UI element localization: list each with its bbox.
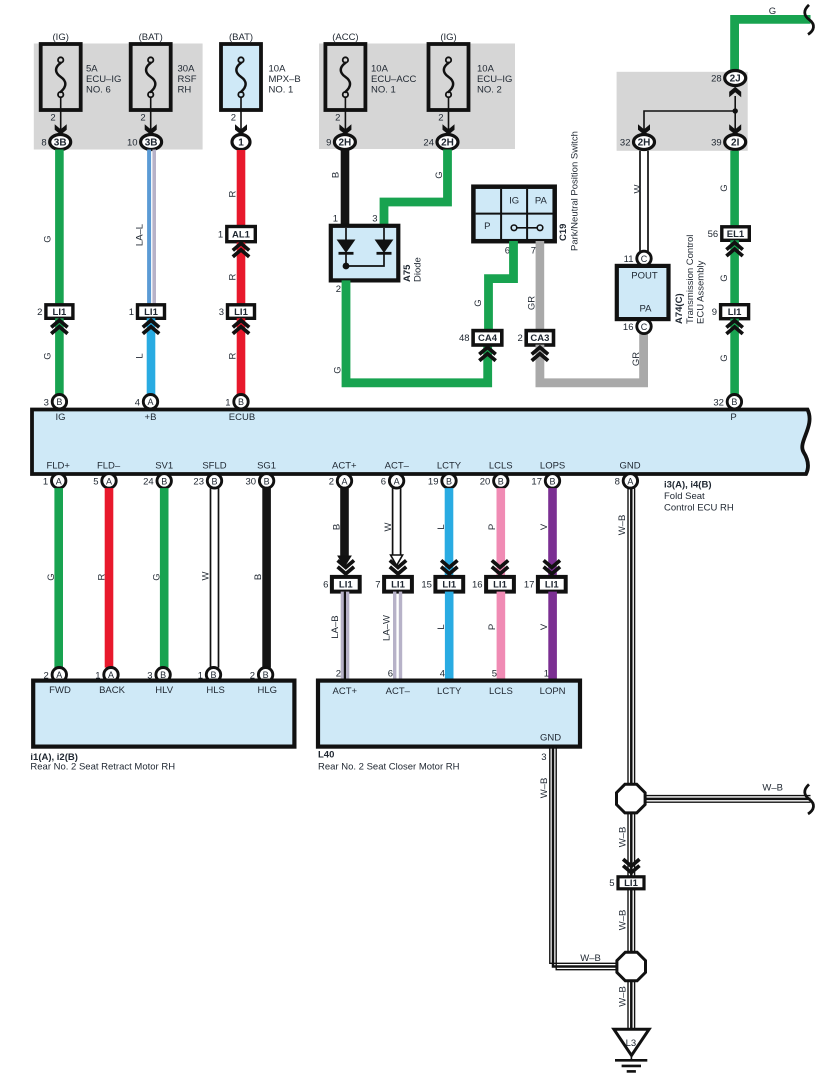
diode 2 cathode bar bbox=[377, 252, 392, 255]
svg-text:2: 2 bbox=[335, 113, 340, 124]
svg-text:Rear No. 2 Seat Retract Motor: Rear No. 2 Seat Retract Motor RH bbox=[30, 762, 175, 773]
svg-text:G: G bbox=[719, 184, 730, 191]
svg-text:3: 3 bbox=[44, 397, 49, 408]
svg-text:W–B: W–B bbox=[617, 910, 628, 931]
svg-text:1: 1 bbox=[225, 397, 230, 408]
svg-text:B: B bbox=[211, 476, 217, 486]
svg-text:LCLS: LCLS bbox=[489, 686, 513, 697]
A74 pin 11 circle bbox=[637, 251, 651, 265]
svg-text:LI1: LI1 bbox=[144, 307, 158, 318]
svg-text:RSF: RSF bbox=[178, 74, 197, 85]
ECU pin 17(B) circle bbox=[545, 474, 559, 488]
svg-text:2H: 2H bbox=[441, 138, 454, 149]
svg-text:ECU–IG: ECU–IG bbox=[86, 74, 121, 85]
fuse 4 pin 2 wire and arrow bbox=[344, 97, 346, 134]
svg-text:2: 2 bbox=[231, 113, 236, 124]
svg-text:BACK: BACK bbox=[99, 685, 126, 696]
svg-text:1: 1 bbox=[544, 669, 549, 680]
svg-text:B: B bbox=[498, 476, 504, 486]
svg-text:LI1: LI1 bbox=[234, 307, 248, 318]
arrow into 2H bbox=[638, 124, 650, 135]
arrow chevrons below LI1 pin3 bbox=[233, 320, 249, 327]
svg-text:R: R bbox=[96, 573, 107, 580]
svg-text:1: 1 bbox=[218, 230, 223, 241]
arrow outline W ACT- bbox=[391, 555, 403, 566]
svg-text:LI1: LI1 bbox=[493, 580, 507, 591]
arrow chevrons below AL1 bbox=[233, 243, 249, 250]
diode A75 box bbox=[331, 226, 399, 281]
svg-text:24: 24 bbox=[423, 138, 434, 149]
svg-text:LI1: LI1 bbox=[624, 878, 638, 889]
svg-text:C19: C19 bbox=[558, 224, 569, 241]
diode 1 triangle bbox=[337, 240, 356, 254]
svg-text:GND: GND bbox=[540, 733, 561, 744]
connector EL1 pin 56 bbox=[722, 227, 750, 241]
connector LI1 pin 3 bbox=[228, 305, 255, 319]
svg-text:G: G bbox=[43, 235, 54, 242]
motor pin 1(A) circle bbox=[104, 668, 118, 682]
svg-text:NO. 2: NO. 2 bbox=[477, 85, 502, 96]
svg-text:6: 6 bbox=[388, 669, 393, 680]
svg-text:7: 7 bbox=[375, 580, 380, 591]
motor pin 2(B) circle bbox=[258, 668, 272, 682]
svg-text:2: 2 bbox=[438, 113, 443, 124]
svg-text:i3(A), i4(B): i3(A), i4(B) bbox=[664, 480, 712, 491]
svg-text:23: 23 bbox=[193, 477, 204, 488]
svg-text:4: 4 bbox=[135, 397, 140, 408]
svg-text:CA3: CA3 bbox=[530, 333, 549, 344]
svg-text:P: P bbox=[487, 524, 498, 530]
connector 2H pin 32 bbox=[634, 135, 655, 150]
svg-text:2: 2 bbox=[518, 333, 523, 344]
diode 2 anode line bbox=[383, 228, 385, 240]
fuse 10A MPX-B NO. 1 bbox=[221, 44, 261, 110]
seat closer motor box L40 bbox=[318, 681, 580, 747]
wire B SG1 bbox=[262, 488, 271, 667]
svg-text:2H: 2H bbox=[339, 138, 352, 149]
svg-text:20: 20 bbox=[480, 477, 491, 488]
svg-text:30A: 30A bbox=[178, 64, 196, 75]
connector 3B pin 8 bbox=[50, 135, 71, 150]
ground triangle L3 bbox=[614, 1029, 649, 1055]
svg-text:G: G bbox=[769, 6, 776, 17]
svg-text:L: L bbox=[436, 524, 447, 529]
svg-text:(IG): (IG) bbox=[53, 32, 69, 43]
svg-text:V: V bbox=[539, 623, 550, 630]
svg-text:Transmission Control: Transmission Control bbox=[685, 235, 696, 324]
wire P LCLS bbox=[497, 488, 506, 577]
wire B ACT+ bbox=[340, 488, 349, 558]
wire W-B octagon to LI1 pin5 bbox=[627, 812, 629, 876]
arrow chevrons ACT- bbox=[390, 560, 406, 567]
svg-text:2H: 2H bbox=[638, 138, 651, 149]
wire junction to 2I branch bbox=[734, 111, 736, 134]
svg-text:ECUB: ECUB bbox=[229, 412, 255, 423]
arrow chevrons below LI1 pin1 bbox=[143, 320, 159, 327]
svg-text:LI1: LI1 bbox=[339, 580, 353, 591]
svg-text:3: 3 bbox=[541, 752, 546, 763]
ECU pin 3(B) circle bbox=[52, 395, 66, 409]
svg-text:1: 1 bbox=[333, 214, 338, 225]
svg-text:3B: 3B bbox=[145, 138, 158, 149]
svg-text:PA: PA bbox=[640, 304, 653, 315]
svg-text:W–B: W–B bbox=[762, 783, 783, 794]
svg-text:19: 19 bbox=[428, 477, 439, 488]
svg-text:LA–B: LA–B bbox=[330, 615, 341, 638]
wire W 2H to A74 pin11 bbox=[639, 151, 641, 251]
svg-text:FLD+: FLD+ bbox=[46, 461, 70, 472]
svg-text:LCTY: LCTY bbox=[437, 461, 462, 472]
wire L LCTY lower bbox=[445, 592, 454, 681]
svg-text:30: 30 bbox=[246, 477, 257, 488]
wire G diode pin2 to CA4 bbox=[346, 280, 488, 382]
svg-text:RH: RH bbox=[178, 85, 192, 96]
svg-text:LCLS: LCLS bbox=[489, 461, 513, 472]
svg-text:HLV: HLV bbox=[155, 685, 173, 696]
wire W-B octagon to ground bbox=[627, 981, 629, 1029]
svg-text:A: A bbox=[394, 476, 400, 486]
svg-text:P: P bbox=[487, 624, 498, 630]
fuse 1 pin 2 wire and arrow bbox=[60, 97, 62, 134]
svg-text:G: G bbox=[434, 171, 445, 178]
svg-text:ACT–: ACT– bbox=[385, 461, 410, 472]
svg-text:LOPN: LOPN bbox=[540, 686, 566, 697]
svg-text:LI1: LI1 bbox=[391, 580, 405, 591]
svg-text:LA–L: LA–L bbox=[135, 224, 146, 246]
svg-text:8: 8 bbox=[615, 477, 620, 488]
C19 switch box bbox=[473, 187, 554, 242]
diode junction dot bbox=[343, 263, 350, 270]
ground hatch 3 bbox=[627, 1070, 636, 1073]
fuse 5 pin 2 wire and arrow bbox=[448, 97, 450, 134]
diode 2 cathode line bbox=[346, 253, 384, 266]
svg-text:(IG): (IG) bbox=[440, 32, 456, 43]
junction block gray panel (IG/BAT fuses) bbox=[34, 44, 203, 150]
svg-text:Control ECU RH: Control ECU RH bbox=[664, 503, 734, 514]
svg-text:Park/Neutral Position Switch: Park/Neutral Position Switch bbox=[570, 131, 581, 251]
svg-text:R: R bbox=[228, 352, 239, 359]
svg-text:W: W bbox=[201, 571, 212, 580]
svg-text:1: 1 bbox=[238, 138, 244, 149]
arrow chevrons below CA4 bbox=[479, 347, 495, 354]
wire R col 3 upper bbox=[237, 150, 246, 228]
svg-text:28: 28 bbox=[711, 74, 722, 85]
wire P LCLS lower bbox=[497, 592, 506, 681]
svg-text:2I: 2I bbox=[731, 138, 740, 149]
svg-text:W–B: W–B bbox=[617, 986, 628, 1007]
svg-text:G: G bbox=[46, 573, 57, 580]
svg-text:W–B: W–B bbox=[617, 827, 628, 848]
svg-text:CA4: CA4 bbox=[478, 333, 498, 344]
svg-text:NO. 1: NO. 1 bbox=[269, 85, 294, 96]
connector 2H pin 9 bbox=[334, 135, 355, 150]
ECU pin 19(B) circle bbox=[442, 474, 456, 488]
svg-text:L: L bbox=[135, 353, 146, 358]
svg-text:5A: 5A bbox=[86, 64, 98, 75]
fuse 2 pin 2 wire and arrow bbox=[150, 97, 152, 134]
svg-text:C: C bbox=[641, 254, 648, 264]
arrow chevrons below LI1 pin2 bbox=[51, 320, 67, 327]
wire R col 3 middle bbox=[237, 243, 246, 306]
svg-text:B: B bbox=[331, 172, 342, 178]
junction block gray panel (2J/2H/2I) bbox=[617, 72, 748, 151]
svg-text:LI1: LI1 bbox=[442, 580, 456, 591]
ECU pin 32(B) circle bbox=[727, 395, 741, 409]
wire G col 1 lower bbox=[55, 318, 64, 395]
ECU pin 30(B) circle bbox=[259, 474, 273, 488]
svg-text:17: 17 bbox=[531, 477, 542, 488]
svg-text:7: 7 bbox=[531, 246, 536, 257]
svg-text:6: 6 bbox=[323, 580, 328, 591]
svg-text:L40: L40 bbox=[318, 750, 334, 761]
wire W ACT- bbox=[392, 488, 394, 556]
arrow chevrons into LI1 pin5 bbox=[623, 859, 639, 866]
arrow chevrons LCTY bbox=[441, 560, 457, 567]
svg-text:ECU Assembly: ECU Assembly bbox=[696, 260, 707, 324]
arrow into 2I bbox=[729, 124, 741, 135]
svg-text:NO. 6: NO. 6 bbox=[86, 85, 111, 96]
svg-text:SFLD: SFLD bbox=[202, 461, 226, 472]
svg-text:G: G bbox=[43, 352, 54, 359]
svg-text:POUT: POUT bbox=[631, 271, 658, 282]
connector LI1 pin 5 bbox=[618, 877, 644, 889]
arrow solid B ACT+ bbox=[337, 556, 352, 568]
svg-text:B: B bbox=[56, 397, 62, 407]
wire G C19 pin6 to CA4 bbox=[489, 241, 514, 332]
svg-text:A75: A75 bbox=[402, 264, 413, 282]
svg-text:B: B bbox=[332, 524, 343, 530]
svg-text:4: 4 bbox=[440, 669, 445, 680]
fuse 10A ECU-ACC NO. 1 bbox=[325, 44, 365, 110]
junction dot bbox=[733, 108, 738, 113]
svg-text:GR: GR bbox=[631, 352, 642, 366]
ECU pin 6(A) circle bbox=[389, 474, 403, 488]
wire R col 3 lower bbox=[237, 318, 246, 395]
svg-text:GR: GR bbox=[527, 296, 538, 310]
svg-text:W: W bbox=[383, 522, 394, 531]
svg-text:P: P bbox=[484, 221, 490, 232]
svg-text:LA–W: LA–W bbox=[382, 615, 393, 641]
connector LI1 pin 16 bbox=[486, 577, 514, 592]
connector CA4 pin 48 bbox=[473, 331, 502, 345]
svg-text:ECU–IG: ECU–IG bbox=[477, 74, 512, 85]
wire R FLD- bbox=[105, 488, 114, 667]
svg-text:SV1: SV1 bbox=[155, 461, 173, 472]
connector LI1 pin 15 bbox=[435, 577, 463, 592]
svg-text:32: 32 bbox=[620, 138, 631, 149]
svg-text:R: R bbox=[228, 190, 239, 197]
svg-text:LCTY: LCTY bbox=[437, 686, 462, 697]
fuse 3 pin 2 wire and arrow bbox=[240, 97, 242, 134]
wire L LCTY bbox=[445, 488, 454, 577]
wire W-B from L40 GND bbox=[550, 747, 617, 964]
svg-text:G: G bbox=[473, 299, 484, 306]
C19 contact right bbox=[537, 225, 543, 231]
connector LI1 pin 17 bbox=[538, 577, 566, 592]
wire V LOPS bbox=[548, 488, 557, 577]
diode 1 cathode bar bbox=[339, 252, 354, 255]
svg-text:48: 48 bbox=[459, 333, 470, 344]
svg-text:PA: PA bbox=[535, 196, 548, 207]
connector 2I pin 39 bbox=[725, 135, 746, 150]
svg-text:10A: 10A bbox=[269, 64, 287, 75]
ECU pin 1(B) circle bbox=[234, 395, 248, 409]
arrow chevrons below EL1 bbox=[726, 243, 742, 250]
svg-text:LOPS: LOPS bbox=[540, 461, 565, 472]
arrow chevrons ACT+ bbox=[338, 560, 354, 567]
svg-text:A: A bbox=[627, 476, 633, 486]
connector LI1 pin 2 bbox=[46, 305, 73, 319]
svg-text:W–B: W–B bbox=[580, 953, 601, 964]
svg-text:AL1: AL1 bbox=[232, 230, 251, 241]
C19 grid vertical 1 bbox=[500, 189, 502, 239]
wire G col 5 (IG2 to diode) bbox=[384, 150, 448, 227]
ground stem bbox=[630, 1055, 632, 1060]
svg-text:10A: 10A bbox=[477, 64, 495, 75]
C19 contact left bbox=[511, 225, 517, 231]
fuse 30A RSF RH bbox=[131, 44, 171, 110]
svg-text:2: 2 bbox=[37, 307, 42, 318]
connector oval 1 bbox=[232, 135, 250, 150]
ECU pin 23(B) circle bbox=[207, 474, 221, 488]
wire GR CA3 to A74 pin16 bbox=[540, 334, 644, 383]
ECU pin 24(B) circle bbox=[157, 474, 171, 488]
seat retract motor box bbox=[33, 681, 294, 747]
svg-text:L: L bbox=[436, 624, 447, 629]
A74 pin 16 circle bbox=[637, 319, 651, 333]
C19 grid horizontal bbox=[476, 213, 553, 215]
arrow chevrons below CA3 bbox=[532, 347, 548, 354]
svg-text:B: B bbox=[446, 476, 452, 486]
ground junction octagon lower bbox=[617, 952, 646, 981]
svg-text:3: 3 bbox=[219, 307, 224, 318]
svg-text:G: G bbox=[719, 354, 730, 361]
svg-text:(ACC): (ACC) bbox=[332, 32, 358, 43]
ECU pin 4(A) circle bbox=[143, 395, 157, 409]
ground junction octagon upper bbox=[617, 784, 646, 813]
motor pin 1(B) circle bbox=[206, 668, 220, 682]
ECU pin 20(B) circle bbox=[494, 474, 508, 488]
diode 1 cathode line bbox=[345, 253, 347, 266]
junction block gray panel (ACC/IG fuses) bbox=[319, 44, 515, 150]
svg-text:IG: IG bbox=[509, 196, 519, 207]
svg-text:10: 10 bbox=[127, 138, 138, 149]
svg-text:HLS: HLS bbox=[206, 685, 224, 696]
svg-text:1: 1 bbox=[129, 307, 134, 318]
svg-text:V: V bbox=[539, 523, 550, 530]
wire break symbol right W-B bbox=[805, 784, 814, 814]
svg-text:C: C bbox=[641, 322, 648, 332]
svg-text:A: A bbox=[341, 476, 347, 486]
arrow chevrons below LI1 pin9 bbox=[726, 321, 742, 328]
ground hatch 2 bbox=[622, 1065, 641, 1068]
wire W SFLD bbox=[210, 488, 212, 667]
svg-text:+B: +B bbox=[145, 412, 157, 423]
wire G to 2J (top right) bbox=[735, 19, 811, 71]
svg-text:2: 2 bbox=[329, 477, 334, 488]
svg-text:W–B: W–B bbox=[617, 515, 628, 536]
ground hatch 1 bbox=[615, 1059, 647, 1062]
wire W-B GND ECU to octagon bbox=[627, 488, 629, 785]
svg-text:B: B bbox=[264, 476, 270, 486]
svg-text:A: A bbox=[56, 476, 62, 486]
svg-text:2J: 2J bbox=[730, 74, 741, 85]
svg-text:10A: 10A bbox=[371, 64, 389, 75]
wire B col 4 (ACC to diode) bbox=[341, 150, 350, 227]
svg-text:ACT–: ACT– bbox=[386, 686, 411, 697]
motor pin 3(B) circle bbox=[156, 668, 170, 682]
svg-text:LI1: LI1 bbox=[53, 307, 67, 318]
connector CA3 pin 2 bbox=[526, 331, 553, 345]
svg-text:39: 39 bbox=[711, 138, 722, 149]
wire V LOPS lower bbox=[548, 592, 557, 681]
C19 grid vertical 2 bbox=[526, 189, 528, 239]
diode 2 triangle bbox=[375, 240, 394, 254]
arrow chevrons LCLS bbox=[492, 560, 508, 567]
svg-text:17: 17 bbox=[524, 580, 535, 591]
wire G LI1 to ECU pin P bbox=[730, 319, 739, 395]
svg-text:W: W bbox=[633, 184, 644, 193]
C19 contact line bbox=[517, 227, 537, 229]
svg-text:G: G bbox=[333, 366, 344, 373]
connector LI1 pin 7 bbox=[384, 577, 412, 592]
svg-text:G: G bbox=[719, 274, 730, 281]
svg-text:5: 5 bbox=[93, 477, 98, 488]
connector LI1 pin 6 bbox=[332, 577, 360, 592]
svg-text:2: 2 bbox=[50, 113, 55, 124]
ECU pin 5(A) circle bbox=[102, 474, 116, 488]
svg-text:HLG: HLG bbox=[258, 685, 278, 696]
svg-text:A74(C): A74(C) bbox=[674, 293, 685, 324]
svg-text:(BAT): (BAT) bbox=[139, 32, 163, 43]
svg-text:9: 9 bbox=[712, 307, 717, 318]
motor pin 2(A) circle bbox=[52, 668, 66, 682]
wire G 2I to EL1 bbox=[730, 151, 739, 228]
svg-text:Diode: Diode bbox=[413, 257, 424, 282]
ECU pin 1(A) circle bbox=[52, 474, 66, 488]
svg-text:ECU–ACC: ECU–ACC bbox=[371, 74, 417, 85]
wire LA-W ACT- lower bbox=[393, 592, 396, 681]
svg-text:B: B bbox=[253, 574, 264, 580]
arrow into 2J bbox=[729, 87, 741, 98]
A74(C) box bbox=[617, 266, 669, 319]
wire G EL1 to LI1 bbox=[730, 240, 739, 305]
wire G col 1 upper bbox=[55, 150, 64, 306]
arrow chevrons LOPS bbox=[544, 560, 560, 567]
svg-text:16: 16 bbox=[472, 580, 483, 591]
wire break symbol top right bbox=[805, 5, 814, 35]
svg-text:P: P bbox=[730, 412, 736, 423]
connector LI1 pin 9 bbox=[721, 305, 749, 319]
wire LA-L col 2 upper bbox=[147, 150, 151, 306]
svg-text:16: 16 bbox=[623, 322, 634, 333]
wire G FLD+ bbox=[54, 488, 63, 667]
svg-text:5: 5 bbox=[492, 669, 497, 680]
svg-text:EL1: EL1 bbox=[727, 229, 745, 240]
wire 2J to junction bbox=[734, 96, 736, 111]
svg-text:B: B bbox=[549, 476, 555, 486]
svg-text:L3: L3 bbox=[626, 1038, 637, 1049]
wire G SV1 bbox=[160, 488, 169, 667]
svg-text:LI1: LI1 bbox=[545, 580, 559, 591]
connector 2H pin 24 bbox=[437, 135, 458, 150]
wire GR C19 pin7 to CA3 bbox=[536, 241, 545, 332]
svg-text:(BAT): (BAT) bbox=[229, 32, 253, 43]
svg-text:R: R bbox=[228, 273, 239, 280]
svg-text:8: 8 bbox=[41, 138, 46, 149]
svg-text:B: B bbox=[161, 476, 167, 486]
svg-text:SG1: SG1 bbox=[257, 461, 276, 472]
